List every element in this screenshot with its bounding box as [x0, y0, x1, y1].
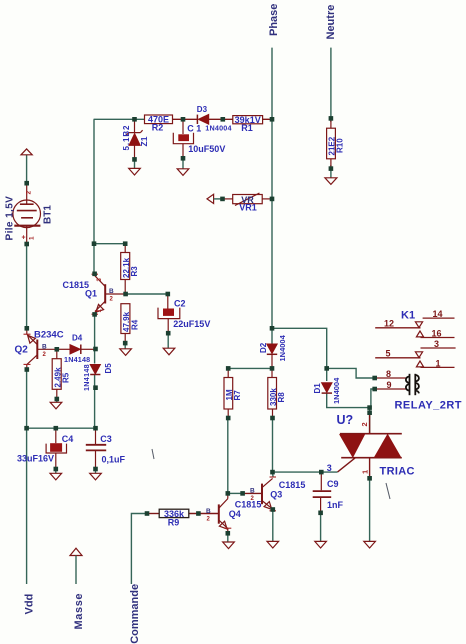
svg-text:1: 1 — [436, 358, 441, 368]
ground below C3 — [90, 473, 102, 480]
transistor Q2 — [24, 328, 57, 369]
wire Commande — [131, 514, 218, 585]
svg-text:Neutre: Neutre — [325, 5, 337, 40]
capacitor C2 22uF15V — [158, 294, 210, 348]
battery label Pile 1,5V — [5, 196, 16, 241]
svg-text:+: + — [22, 235, 26, 242]
svg-text:1: 1 — [29, 236, 36, 240]
svg-text:C1815: C1815 — [235, 500, 262, 510]
svg-text:RELAY_2RT: RELAY_2RT — [395, 400, 462, 412]
wire Q4 collector to R7 — [227, 418, 229, 493]
wire R8 to Q3 collector — [272, 418, 275, 478]
wire battery to Q2 — [26, 244, 28, 328]
svg-text:R2: R2 — [152, 123, 164, 133]
svg-text:C1815: C1815 — [279, 480, 306, 490]
transistor Q3 — [250, 477, 276, 511]
port Vdd — [24, 594, 36, 615]
varistor VR1 — [207, 193, 272, 213]
diode D4 1N4148 — [57, 334, 96, 364]
diode D3 1N4004 — [197, 105, 232, 132]
relay contact 1 — [421, 366, 455, 368]
Q4 label C1815 — [235, 500, 262, 510]
svg-text:2: 2 — [26, 191, 33, 195]
svg-text:3: 3 — [434, 339, 439, 349]
wire Masse stub — [75, 556, 77, 585]
svg-text:14: 14 — [433, 309, 443, 319]
Q1 label C1815 — [63, 280, 90, 290]
scan artifact marks — [152, 449, 390, 499]
triac gate pin3 label — [327, 463, 332, 473]
relay contact 12 common — [375, 327, 420, 329]
resistor R10 — [327, 118, 345, 168]
wire D1 to triac MT2 — [327, 394, 371, 434]
Q4 ref — [229, 509, 241, 519]
svg-text:B: B — [250, 488, 255, 495]
wire triac MT1 to ground — [369, 478, 371, 541]
ground below C4 — [50, 473, 62, 480]
relay pin16 label — [432, 329, 442, 339]
capacitor C9 1nF — [313, 472, 344, 513]
svg-text:R1: R1 — [241, 123, 253, 133]
svg-text:R9: R9 — [168, 517, 180, 527]
wire Neutre vertical — [330, 48, 332, 178]
resistor R5 2.49k — [52, 349, 70, 402]
svg-text:1N4004: 1N4004 — [278, 334, 287, 361]
svg-text:Z1: Z1 — [139, 136, 149, 146]
relay coil pin 8 lead — [375, 377, 406, 379]
svg-text:5.1B2: 5.1B2 — [122, 125, 131, 151]
ground below R10 — [325, 178, 337, 185]
resistor R1 39k1V — [233, 115, 263, 133]
svg-text:B: B — [206, 508, 211, 515]
zener Z1 — [126, 119, 143, 168]
svg-text:Q2: Q2 — [15, 345, 29, 356]
wire C9 bottom — [320, 513, 322, 542]
relay pin5 label — [386, 349, 391, 359]
relay armature mark upper — [415, 322, 423, 337]
svg-text:R3: R3 — [130, 266, 139, 277]
svg-text:B: B — [42, 343, 47, 350]
relay contact 16 — [421, 337, 455, 339]
diode D5 1N4148 — [82, 363, 113, 391]
capacitor C4 33uF16V — [17, 428, 73, 473]
wire relay coil pin9 — [371, 389, 375, 408]
wire top rail y=119 — [94, 118, 272, 120]
svg-text:33uF16V: 33uF16V — [17, 454, 54, 464]
svg-text:D1: D1 — [313, 383, 322, 394]
Q2 ref — [15, 345, 29, 356]
battery BT1 — [13, 183, 41, 244]
junction pads — [24, 116, 377, 535]
svg-text:Masse: Masse — [73, 593, 85, 630]
ground below Z1 — [129, 168, 141, 175]
wire Q2 to Vdd — [26, 370, 28, 585]
svg-text:Q1: Q1 — [85, 289, 97, 299]
svg-text:D2: D2 — [259, 342, 268, 353]
diode D2 1N4004 — [259, 334, 287, 368]
svg-text:Phase: Phase — [268, 4, 280, 36]
ground below C2 — [163, 348, 175, 355]
relay pin14 label — [433, 309, 443, 319]
wire phase to D1 branch — [272, 328, 327, 381]
relay pin3 label — [434, 339, 439, 349]
transistor Q1 — [92, 274, 126, 314]
ground below triac — [364, 541, 376, 548]
wire left vertical x=94 — [93, 119, 95, 274]
diode D1 1N4004 — [313, 377, 341, 404]
svg-text:Q4: Q4 — [229, 509, 241, 519]
svg-text:9: 9 — [387, 380, 392, 390]
svg-text:U?: U? — [337, 413, 354, 427]
Q1 ref — [85, 289, 97, 299]
port Neutre — [325, 5, 337, 40]
relay pin12 label — [384, 319, 394, 329]
relay pin8 label — [386, 369, 391, 379]
ground below Q3 — [267, 541, 279, 548]
triac ref U? — [337, 413, 354, 427]
battery top arrow — [21, 149, 32, 155]
relay K1 label — [401, 310, 415, 322]
svg-text:1N4148: 1N4148 — [82, 364, 91, 391]
svg-text:D5: D5 — [104, 363, 113, 374]
wire R3 branch y=243.7 — [94, 243, 125, 245]
svg-text:1N4148: 1N4148 — [64, 355, 90, 364]
svg-text:R4: R4 — [131, 319, 140, 330]
relay contact 3 — [421, 347, 456, 349]
port Commande — [129, 584, 141, 644]
wire gate rail y=472 — [273, 471, 338, 473]
ground below R5 — [50, 402, 62, 409]
svg-text:1nF: 1nF — [327, 500, 344, 510]
svg-text:R7: R7 — [233, 390, 242, 401]
wire Phase vertical — [271, 48, 273, 344]
resistor R2 470E — [145, 115, 173, 133]
svg-text:22uF15V: 22uF15V — [173, 319, 210, 329]
svg-text:2: 2 — [43, 352, 47, 358]
relay armature mark lower — [415, 352, 423, 367]
svg-text:R10: R10 — [336, 138, 345, 153]
svg-text:0,1uF: 0,1uF — [102, 455, 126, 465]
relay coil — [406, 374, 419, 395]
ground below Q4 — [223, 542, 235, 549]
battery ref BT1 — [43, 205, 54, 224]
svg-text:VR1: VR1 — [239, 203, 257, 213]
svg-text:K1: K1 — [401, 310, 415, 322]
relay name RELAY_2RT — [395, 400, 462, 412]
Q3 ref — [270, 489, 282, 499]
svg-text:5: 5 — [386, 349, 391, 359]
wire Q3 emitter to ground — [272, 510, 274, 542]
wire battery top — [26, 155, 28, 183]
svg-text:8: 8 — [386, 369, 391, 379]
svg-text:16: 16 — [432, 329, 442, 339]
svg-text:C3: C3 — [100, 434, 112, 444]
svg-text:B234C: B234C — [34, 330, 64, 341]
svg-text:1N4004: 1N4004 — [205, 124, 231, 133]
svg-text:C 1: C 1 — [187, 124, 201, 134]
Q2 label B234C — [34, 330, 64, 341]
svg-text:TRIAC: TRIAC — [380, 466, 415, 478]
svg-text:Vdd: Vdd — [24, 594, 36, 615]
relay contact 5 common — [375, 357, 420, 359]
capacitor C3 0,1uF — [86, 428, 126, 473]
svg-text:C4: C4 — [62, 434, 74, 444]
svg-text:47.9k: 47.9k — [122, 311, 131, 332]
resistor R7 1M — [224, 368, 242, 418]
wire relay coil pin8 — [327, 368, 375, 378]
svg-text:BT1: BT1 — [43, 205, 54, 224]
resistor R4 47.9k — [121, 304, 140, 349]
svg-text:1: 1 — [360, 470, 369, 474]
svg-text:C2: C2 — [174, 298, 186, 308]
resistor R9 336k — [159, 509, 189, 528]
ground below R4 — [120, 349, 132, 356]
resistor R3 22.1k — [121, 244, 139, 294]
svg-text:10uF50V: 10uF50V — [188, 144, 225, 154]
wire rail y=428 — [27, 427, 96, 429]
svg-text:Q3: Q3 — [270, 489, 282, 499]
relay pin1 label — [436, 358, 441, 368]
port Phase — [268, 4, 280, 36]
svg-text:C9: C9 — [327, 479, 339, 489]
triac name TRIAC — [380, 466, 415, 478]
relay pin9 label — [387, 380, 392, 390]
wire Q1 base to C2 — [126, 293, 168, 295]
svg-text:D3: D3 — [197, 105, 208, 114]
svg-text:B: B — [109, 288, 114, 295]
triac U? — [338, 413, 402, 479]
ground below C9 — [315, 541, 327, 548]
svg-text:Commande: Commande — [129, 584, 141, 644]
wire R7 R8 top rail y=368.4 — [228, 367, 272, 369]
wire Q1 emitter column x=94.6 — [94, 314, 96, 428]
wire Q4 emitter stub — [227, 533, 229, 542]
wire Q4 collector to Q3 base — [228, 492, 262, 494]
transistor Q4 — [206, 493, 231, 533]
relay contact 14 — [423, 317, 455, 319]
svg-text:3: 3 — [327, 463, 332, 473]
capacitor C1 — [173, 119, 225, 168]
svg-text:R8: R8 — [277, 392, 286, 403]
svg-text:2: 2 — [110, 297, 114, 303]
svg-text:1N4004: 1N4004 — [332, 377, 341, 404]
Q3 label C1815 — [279, 480, 306, 490]
svg-text:2: 2 — [360, 422, 369, 426]
svg-text:Pile 1,5V: Pile 1,5V — [5, 196, 16, 241]
Z1 value 5.1B2 — [122, 125, 131, 151]
svg-text:D4: D4 — [72, 334, 83, 343]
relay coil pin 9 lead — [375, 388, 406, 390]
svg-text:12: 12 — [384, 319, 394, 329]
resistor R8 330k — [268, 368, 286, 418]
Z1 ref — [139, 136, 149, 146]
port Masse — [70, 548, 85, 629]
svg-text:2: 2 — [207, 517, 211, 523]
svg-text:R5: R5 — [62, 372, 71, 383]
ground below C1 — [177, 169, 189, 176]
